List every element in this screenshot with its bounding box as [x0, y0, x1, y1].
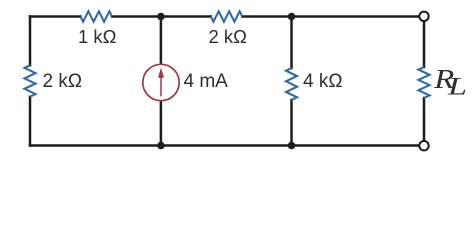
- resistor 4 kOhm (vertical): [286, 68, 297, 100]
- svg-text:4 mA: 4 mA: [184, 71, 229, 92]
- wire current-source branch upper: [160, 17, 163, 65]
- wire top rail right segment: [242, 15, 419, 18]
- terminal circle top: [419, 12, 428, 21]
- current source arrow shaft: [160, 77, 162, 97]
- terminal circle bottom: [419, 141, 428, 150]
- wire 4k branch upper: [290, 17, 293, 69]
- wire RL branch upper: [423, 22, 426, 68]
- wire current-source branch lower: [160, 101, 163, 146]
- wire left rail lower: [29, 97, 32, 146]
- resistor 2 kOhm (left, vertical): [25, 65, 36, 96]
- wire RL branch lower: [423, 98, 426, 141]
- current source arrowhead: [158, 68, 164, 78]
- svg-text:2 kΩ: 2 kΩ: [209, 26, 248, 47]
- svg-text:1 kΩ: 1 kΩ: [78, 26, 117, 47]
- svg-text:2 kΩ: 2 kΩ: [43, 71, 83, 92]
- wire 4k branch lower: [290, 100, 293, 146]
- junction dot bottom right: [288, 142, 296, 150]
- current source circle: [143, 64, 179, 100]
- junction dot top right: [288, 13, 296, 21]
- wire top rail middle segment: [112, 15, 211, 18]
- resistor 2 kOhm (top right, horizontal): [211, 11, 243, 21]
- wire left rail upper: [29, 17, 32, 66]
- wire bottom rail: [30, 144, 419, 147]
- junction dot top middle: [157, 13, 165, 21]
- junction dot bottom middle: [157, 142, 165, 150]
- label RL: [433, 63, 467, 100]
- resistor RL (vertical): [419, 67, 430, 98]
- svg-text:4 kΩ: 4 kΩ: [303, 71, 343, 92]
- svg-text:L: L: [447, 73, 467, 100]
- resistor 1 kOhm (top left, horizontal): [81, 11, 113, 21]
- wire top rail left segment: [30, 15, 81, 18]
